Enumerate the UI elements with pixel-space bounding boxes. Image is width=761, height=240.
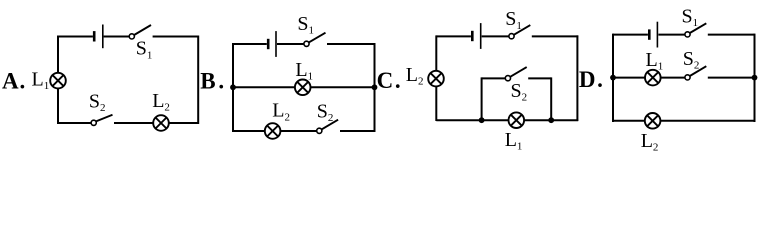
wire right side A [197, 36, 199, 125]
wire right side B [374, 43, 376, 132]
svg-text:L2: L2 [272, 100, 290, 124]
battery BT-C short thick plate [471, 31, 474, 41]
lamp L2 (circuit C) [428, 71, 444, 87]
wire bottom-right B [340, 130, 375, 132]
switch S2 (circuit B) [317, 120, 338, 134]
svg-text:D.: D. [579, 67, 603, 92]
wire left lower C [435, 86, 437, 121]
wire top-right D [708, 34, 755, 36]
wire top-right A [153, 36, 199, 38]
battery BT-B short thick plate [267, 39, 270, 49]
svg-text:S2: S2 [317, 101, 334, 125]
wire branch left vertical C [481, 77, 483, 120]
junction dot left B [230, 84, 236, 90]
svg-text:L1: L1 [505, 129, 523, 153]
battery BT-A long thin plate [102, 25, 104, 49]
svg-text:L2: L2 [641, 130, 659, 154]
wire bottom-right C [524, 119, 578, 121]
wire top-right B [327, 43, 375, 45]
wire bottom-right D [660, 120, 754, 122]
wire middle-right B [310, 86, 374, 88]
wire left upper C [435, 35, 437, 71]
wire battery to switch D [658, 34, 685, 36]
wire lamp to switch D [661, 77, 685, 79]
svg-text:L2: L2 [152, 90, 170, 114]
junction dot right B [372, 84, 378, 90]
svg-text:S2: S2 [683, 48, 700, 72]
svg-text:L1: L1 [646, 49, 664, 73]
lamp L1 (circuit A) [50, 73, 66, 89]
switch S2 (circuit D) [685, 66, 706, 80]
lamp L1 (circuit B) [295, 80, 311, 96]
wire top-left D [613, 34, 648, 36]
wire top-left C [436, 35, 471, 37]
wire bottom-left D [613, 120, 645, 122]
battery BT-B long thin plate [275, 31, 277, 57]
junction dot left C [479, 117, 485, 123]
wire top-left B [233, 43, 267, 45]
wire bottom-left B [233, 130, 265, 132]
switch S1 (circuit D) [685, 23, 706, 37]
junction dot right D [752, 75, 758, 81]
wire top-right C [532, 35, 578, 37]
lamp L2 (circuit D) [645, 113, 661, 129]
svg-text:S2: S2 [511, 80, 528, 104]
lamp L2 (circuit B) [265, 123, 281, 139]
wire branch rail left C [482, 77, 506, 79]
wire battery to switch C [482, 35, 509, 37]
lamp L1 (circuit D) [645, 70, 661, 86]
wire branch rail right C [528, 77, 551, 79]
svg-text:S1: S1 [682, 5, 699, 29]
wire lamp to switch B [280, 130, 317, 132]
switch S1 (circuit B) [304, 33, 326, 47]
wire right side C [576, 35, 578, 121]
svg-text:B.: B. [200, 69, 224, 94]
wire right side D [754, 34, 756, 122]
svg-text:L2: L2 [406, 64, 424, 88]
svg-text:S1: S1 [505, 8, 522, 32]
lamp L1 (circuit C) [509, 112, 525, 128]
switch S2 (circuit A) [91, 115, 112, 126]
svg-text:L1: L1 [295, 59, 313, 83]
wire left lower A [57, 88, 59, 124]
wire middle-right D [708, 77, 755, 79]
junction dot right C [548, 117, 554, 123]
wire top-left A [58, 36, 93, 38]
switch S2 (circuit C) [505, 67, 526, 81]
switch S1 (circuit C) [509, 25, 530, 39]
svg-text:A.: A. [2, 68, 25, 93]
wire middle-left D [613, 77, 645, 79]
switch S1 (circuit A) [129, 25, 151, 39]
wire switch to lamp A [114, 122, 153, 124]
wire battery to switch B [277, 43, 304, 45]
wire left side D [612, 34, 614, 122]
battery BT-D long thin plate [656, 22, 658, 48]
wire bottom-right A [169, 122, 199, 124]
wire battery to switch A [104, 36, 130, 38]
wire bottom-left A [58, 122, 91, 124]
svg-text:C.: C. [377, 68, 401, 93]
wire left side B [232, 43, 234, 132]
svg-text:S1: S1 [136, 38, 153, 62]
svg-text:S2: S2 [89, 91, 106, 115]
svg-text:L1: L1 [32, 69, 50, 93]
wire middle-left B [233, 86, 295, 88]
battery BT-A short thick plate [93, 31, 96, 41]
lamp L2 (circuit A) [153, 115, 169, 131]
svg-text:S1: S1 [297, 13, 314, 37]
wire left upper A [57, 36, 59, 74]
junction dot left D [610, 75, 616, 81]
battery BT-C long thin plate [480, 23, 482, 49]
battery BT-D short thick plate [648, 29, 651, 39]
wire branch right vertical C [550, 77, 552, 120]
wire bottom-left C [436, 119, 508, 121]
